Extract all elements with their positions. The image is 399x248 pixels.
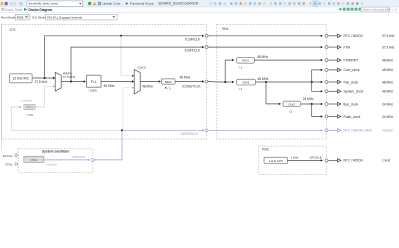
tab row background (0, 7, 399, 12)
svg-text:48 MHz: 48 MHz (104, 84, 115, 88)
wire: DIV3 output 48 MHz to FTM/PWT (255, 59, 322, 61)
component: DIV1 (236, 79, 255, 85)
svg-text:DIV2: DIV2 (288, 102, 295, 106)
svg-text:37.5 kHz: 37.5 kHz (382, 34, 395, 38)
ICS peripheral box (2, 25, 207, 140)
wire: CLKS output to BDIV (140, 81, 160, 83)
search box (361, 7, 390, 12)
output port FTM/PWT (321, 59, 323, 61)
svg-text:RDIV: RDIV (26, 105, 33, 109)
svg-text:BDIV: BDIV (165, 80, 172, 84)
svg-text:Inactive: Inactive (46, 163, 57, 167)
svg-text:OSCERCLK: OSCERCLK (180, 132, 198, 136)
wire: LPOCLK (288, 159, 323, 161)
svg-text:Inactive: Inactive (382, 129, 393, 133)
svg-text:48 MHz: 48 MHz (382, 90, 393, 94)
svg-text:/ 1: / 1 (239, 87, 243, 91)
status icons (88, 2, 91, 5)
output port Plat_clock (321, 81, 323, 83)
svg-text:frdmke06_hello_world: frdmke06_hello_world (29, 2, 59, 6)
wire: riser to DIV3 (225, 60, 233, 82)
component: BDIV (162, 79, 176, 84)
port: OSCCLK (91, 158, 94, 161)
update code button (98, 2, 101, 6)
component: OSC (inactive) (24, 156, 44, 162)
toolbar left icons (1, 2, 4, 5)
svg-text:Flash_clock: Flash_clock (344, 115, 361, 119)
wire: ICSOUTCLK into SIM (208, 81, 217, 84)
wire: inactive branch left to RDIV (11, 107, 122, 130)
svg-text:24 MHz: 24 MHz (303, 97, 314, 101)
junction on IRC output (44, 77, 46, 79)
svg-text:PMC: PMC (262, 148, 270, 152)
svg-text:ICS Mode: ICS Mode (32, 15, 46, 19)
svg-text:FLL: FLL (91, 80, 97, 84)
component: FLL (87, 75, 102, 87)
svg-text:SIM: SIM (222, 27, 228, 31)
ICS output ports (205, 34, 208, 37)
wire: DIV1 output 48 MHz (Plat row) (256, 81, 322, 83)
svg-text:RTC / WDOG / ADC: RTC / WDOG / ADC (344, 129, 373, 133)
output port RTC / WDOG / ADC (321, 129, 323, 131)
svg-text:48 MHz: 48 MHz (382, 80, 393, 84)
SIM peripheral box (217, 25, 327, 140)
svg-text:FTM/PWT: FTM/PWT (344, 58, 359, 62)
svg-text:ICSIRCLK: ICSIRCLK (185, 37, 201, 41)
svg-text:48 MHz: 48 MHz (142, 84, 153, 88)
svg-text:/ 2: / 2 (289, 109, 293, 113)
junction: core/system riser (311, 81, 313, 83)
wire: OSC riser to CLKS mux (inactive) (123, 88, 134, 131)
junction on ICSIRCLK (120, 35, 122, 37)
PMC peripheral box (259, 146, 327, 174)
svg-text:24 MHz: 24 MHz (382, 115, 393, 119)
svg-text:Core_clock: Core_clock (344, 68, 360, 72)
svg-text:OSCCLK: OSCCLK (73, 155, 87, 159)
wire: OSCERCLK to ICS port (blue) (122, 129, 204, 131)
wire: IRC output 37.5 kHz (32, 77, 55, 79)
wire: riser to Flash_clock (312, 104, 322, 117)
svg-text:48 MHz: 48 MHz (382, 58, 393, 62)
svg-text:ICS: ICS (10, 28, 17, 32)
project combo box (27, 1, 83, 6)
svg-text:DIV1: DIV1 (243, 81, 250, 85)
svg-text:RTC / WDOG: RTC / WDOG (344, 34, 364, 38)
svg-text:BOARD_BootClockRUN: BOARD_BootClockRUN (159, 2, 199, 6)
System oscillator box (18, 149, 93, 173)
svg-text:37.5 kHz: 37.5 kHz (382, 45, 395, 49)
wire: inactive drop from ICSIRCLK to CLKS mux input (121, 36, 134, 76)
tab row right: teal icons + search (339, 8, 342, 10)
wire: riser to System_clock (312, 82, 322, 91)
mode row background (0, 13, 399, 22)
wire: riser to Core_clock (312, 70, 322, 82)
svg-text:/ 1: / 1 (167, 87, 171, 91)
svg-text:/ 1: / 1 (239, 65, 243, 69)
output port FTM (321, 46, 323, 48)
tab: Clocks Table (1, 8, 4, 11)
component: DIV3 (236, 57, 254, 63)
svg-text:48 MHz: 48 MHz (257, 55, 268, 59)
output RTC / WDOG (PMC) (328, 159, 337, 161)
wire: OSCERCLK through SIM (blue) (208, 129, 322, 131)
toolbar right icon cluster (210, 2, 212, 5)
svg-text:Functional Group: Functional Group (130, 2, 154, 6)
wire: ICSIRCLK net (tap up and across to ICS port) (45, 36, 204, 78)
wire: ICSFFCLK into SIM to FTM output (208, 46, 322, 48)
svg-text:Inactive: Inactive (21, 99, 32, 103)
svg-text:ICSFFCLK: ICSFFCLK (185, 49, 201, 53)
wire: OSCCLK from oscillator (inactive blue) (44, 159, 89, 161)
wire: ICSIRCLK into SIM to RTC/WDOG output (208, 35, 322, 37)
svg-text:FEI (FLL Engaged Internal): FEI (FLL Engaged Internal) (47, 15, 82, 19)
svg-text:Search elements in di: Search elements in di (363, 8, 391, 12)
svg-text:/ 256: / 256 (26, 113, 33, 117)
svg-text:Clocks Table: Clocks Table (4, 8, 22, 12)
svg-text:Plat_clock: Plat_clock (344, 80, 359, 84)
svg-text:System oscillator: System oscillator (42, 150, 70, 154)
wire: ICSFFCLK net (tap to port) (71, 47, 204, 81)
svg-text:48 MHz: 48 MHz (382, 68, 393, 72)
junction: SIM main node (224, 81, 226, 83)
component: DIV2 (283, 101, 301, 106)
output port Bus_clock (321, 103, 323, 105)
port: OSCERCLK (205, 129, 208, 132)
svg-text:* 1280: * 1280 (88, 89, 97, 93)
wire: DIV2 output 24 MHz (Bus row) (301, 103, 322, 105)
svg-text:CLKS: CLKS (138, 66, 146, 70)
junction: DIV1 out (265, 81, 267, 83)
output port System_clock (321, 90, 323, 92)
svg-text:1 kHz: 1 kHz (291, 156, 299, 160)
svg-text:LPOCLK: LPOCLK (310, 156, 323, 160)
svg-text:1 kHz: 1 kHz (382, 159, 391, 163)
svg-text:╮ □: ╮ □ (391, 8, 397, 12)
svg-text:37.5 kHz: 37.5 kHz (35, 80, 48, 84)
svg-text:DIV3: DIV3 (242, 59, 249, 63)
svg-text:FTM: FTM (344, 45, 351, 49)
svg-text:37.5 kHz: 37.5 kHz (63, 75, 76, 79)
svg-text:Run Mode: Run Mode (1, 15, 16, 19)
svg-text:48 MHz: 48 MHz (180, 76, 191, 80)
svg-text:Update Code: Update Code (102, 2, 121, 6)
mux IREFS (55, 72, 61, 91)
svg-text:48 MHz: 48 MHz (258, 77, 269, 81)
svg-text:RTC / WDOG: RTC / WDOG (344, 159, 364, 163)
wire: ICSOUTCLK to port (175, 81, 204, 83)
output port Core_clock (321, 69, 323, 71)
wire: riser to DIV2 (266, 82, 280, 104)
svg-text:EXTAL: EXTAL (3, 154, 13, 158)
toolbar background row1 (0, 0, 399, 7)
svg-text:System_clock: System_clock (344, 90, 364, 94)
svg-text:OSC: OSC (30, 158, 37, 162)
component: 1 kHz LPO (264, 157, 288, 163)
svg-text:24 MHz: 24 MHz (382, 102, 393, 106)
wire: RDIV to IREFS mux (inactive) (35, 86, 54, 107)
tab: Clocks Diagram (active) (24, 8, 27, 11)
component: 32 kHz IRC (10, 74, 33, 83)
junction: OSCERCLK node (121, 129, 123, 131)
svg-text:Bus_clock: Bus_clock (344, 102, 359, 106)
svg-text:XTAL: XTAL (5, 163, 13, 167)
svg-text:1 kHz LPO: 1 kHz LPO (268, 159, 283, 163)
output port RTC / WDOG (321, 35, 323, 37)
svg-text:ICSOUTCLK: ICSOUTCLK (182, 85, 201, 89)
port: LPOCLK (325, 159, 328, 162)
wire: FLL output 48 MHz (101, 81, 134, 83)
wire: FLL input node (61, 81, 85, 83)
left canvas edge (pink dashed) (1, 25, 3, 151)
output port Flash_clock (321, 115, 323, 117)
junction: bus/flash riser (311, 103, 313, 105)
wire: OSCCLK riser to OSCERCLK node (95, 130, 123, 160)
svg-text:RUN: RUN (17, 15, 24, 19)
svg-text:32 kHz IRC: 32 kHz IRC (13, 76, 30, 80)
